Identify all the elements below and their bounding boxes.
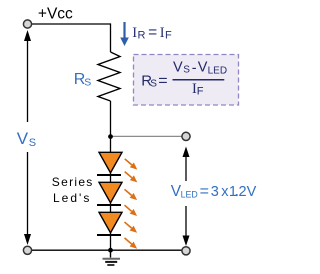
svg-text:Led's: Led's: [53, 191, 91, 205]
svg-text:Series: Series: [52, 175, 94, 189]
svg-text:+Vcc: +Vcc: [38, 6, 73, 23]
